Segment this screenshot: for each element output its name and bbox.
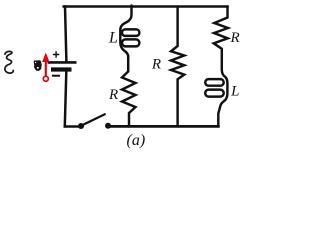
svg-text:(a): (a) <box>127 132 146 149</box>
svg-text:R: R <box>108 87 118 103</box>
svg-text:L: L <box>108 29 118 46</box>
svg-text:R: R <box>230 30 240 46</box>
svg-text:R: R <box>151 57 161 73</box>
svg-text:L: L <box>230 84 239 100</box>
